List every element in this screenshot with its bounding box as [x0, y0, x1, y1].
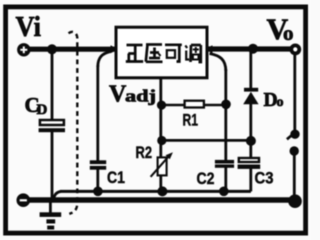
svg-text:adj: adj — [125, 87, 156, 106]
svg-text:C1: C1 — [107, 169, 125, 187]
svg-text:C3: C3 — [255, 170, 274, 188]
svg-text:D: D — [37, 102, 48, 118]
svg-text:Vi: Vi — [16, 12, 42, 43]
svg-text:R1: R1 — [183, 112, 199, 130]
svg-text:o: o — [277, 95, 284, 110]
svg-text:o: o — [283, 21, 294, 45]
svg-text:D: D — [264, 90, 278, 111]
svg-text:R2: R2 — [136, 144, 153, 162]
svg-text:C2: C2 — [197, 170, 215, 188]
